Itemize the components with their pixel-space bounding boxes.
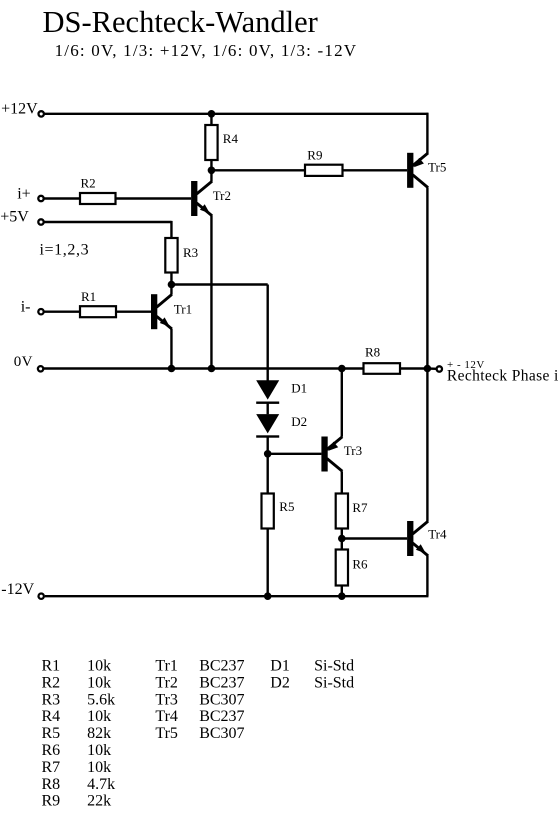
svg-text:BC237: BC237 (199, 658, 244, 675)
svg-text:DS-Rechteck-Wandler: DS-Rechteck-Wandler (43, 5, 318, 39)
svg-text:22k: 22k (87, 793, 111, 810)
svg-text:R1: R1 (81, 289, 96, 304)
svg-text:Tr4: Tr4 (155, 708, 178, 725)
svg-text:R5: R5 (42, 725, 61, 742)
svg-text:Tr5: Tr5 (155, 725, 178, 742)
svg-text:R9: R9 (307, 147, 322, 162)
svg-text:Tr1: Tr1 (174, 301, 192, 316)
svg-text:Tr2: Tr2 (155, 674, 178, 691)
svg-text:R4: R4 (223, 131, 239, 146)
svg-text:+5V: +5V (0, 208, 29, 225)
svg-text:1/6: 0V, 1/3: +12V, 1/6: 0V, 1: 1/6: 0V, 1/3: +12V, 1/6: 0V, 1/3: -12V (55, 41, 358, 60)
svg-text:R3: R3 (42, 691, 61, 708)
svg-text:Tr3: Tr3 (155, 691, 178, 708)
svg-text:BC307: BC307 (199, 725, 244, 742)
svg-text:10k: 10k (87, 742, 111, 759)
svg-text:82k: 82k (87, 725, 111, 742)
svg-text:R8: R8 (365, 345, 380, 360)
svg-text:R3: R3 (183, 245, 198, 260)
svg-text:Tr2: Tr2 (213, 188, 231, 203)
svg-text:D2: D2 (291, 414, 307, 429)
svg-text:R7: R7 (42, 759, 61, 776)
svg-text:Si-Std: Si-Std (314, 658, 354, 675)
svg-text:Rechteck Phase i: Rechteck Phase i (447, 368, 559, 385)
svg-text:-12V: -12V (1, 581, 34, 598)
svg-text:Tr3: Tr3 (344, 443, 362, 458)
svg-text:R4: R4 (42, 708, 61, 725)
svg-text:10k: 10k (87, 674, 111, 691)
svg-text:Tr5: Tr5 (428, 160, 446, 175)
svg-text:10k: 10k (87, 759, 111, 776)
svg-text:5.6k: 5.6k (87, 691, 115, 708)
svg-text:Si-Std: Si-Std (314, 674, 354, 691)
svg-text:10k: 10k (87, 658, 111, 675)
svg-text:R6: R6 (352, 556, 368, 571)
svg-text:BC237: BC237 (199, 708, 244, 725)
svg-text:D1: D1 (270, 658, 290, 675)
svg-text:i=1,2,3: i=1,2,3 (40, 242, 90, 259)
svg-text:R2: R2 (81, 175, 96, 190)
svg-text:+12V: +12V (1, 100, 38, 117)
svg-text:R7: R7 (352, 500, 368, 515)
svg-text:0V: 0V (14, 354, 33, 370)
svg-text:BC237: BC237 (199, 674, 244, 691)
svg-text:R1: R1 (42, 658, 61, 675)
svg-text:R8: R8 (42, 776, 61, 793)
svg-text:R9: R9 (42, 793, 61, 810)
svg-text:R5: R5 (279, 499, 294, 514)
svg-text:i+: i+ (17, 186, 30, 203)
svg-text:BC307: BC307 (199, 691, 244, 708)
svg-text:D2: D2 (270, 674, 290, 691)
svg-text:D1: D1 (291, 381, 307, 396)
svg-text:R6: R6 (42, 742, 61, 759)
svg-text:i-: i- (21, 299, 31, 316)
svg-text:10k: 10k (87, 708, 111, 725)
svg-text:Tr4: Tr4 (428, 526, 447, 541)
svg-text:4.7k: 4.7k (87, 776, 115, 793)
svg-text:Tr1: Tr1 (155, 658, 178, 675)
svg-text:R2: R2 (42, 674, 61, 691)
